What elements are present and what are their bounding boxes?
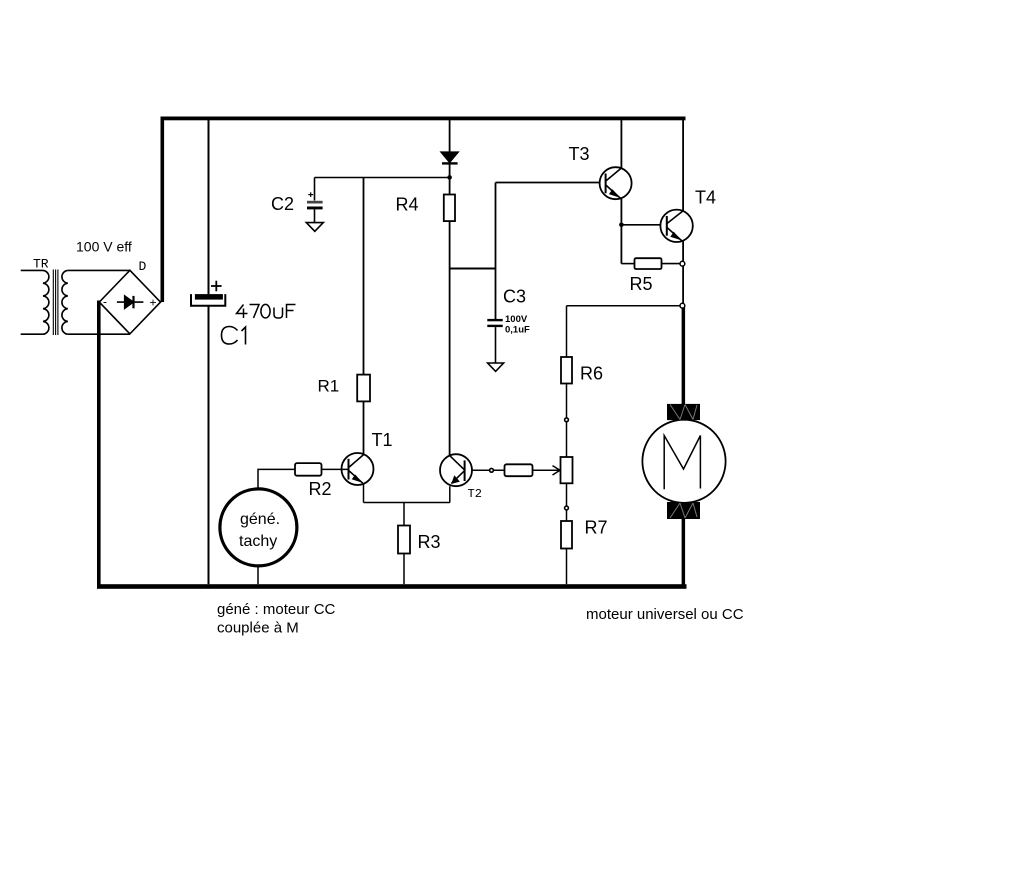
wire C1 bottom lead: [208, 306, 210, 584]
capacitor C1: [191, 281, 225, 306]
node motor branch: [680, 303, 685, 308]
node pot top: [565, 418, 569, 422]
wire R1 top lead: [363, 178, 365, 375]
svg-text:R1: R1: [318, 377, 340, 396]
svg-text:R4: R4: [396, 195, 419, 215]
wire T4 emitter: [682, 241, 684, 305]
node pot bottom: [565, 506, 569, 510]
wire R6 branch horizontal: [567, 305, 681, 307]
wire R4 to T2 collector: [449, 221, 451, 456]
wire motor bottom (thick): [682, 519, 686, 586]
wire pot to R7: [566, 483, 568, 521]
svg-text:T4: T4: [695, 188, 716, 208]
wire T1 emitter: [363, 484, 365, 502]
diode bridge D: [99, 270, 160, 334]
motor M: [642, 404, 725, 519]
transistor T3: [600, 167, 632, 199]
svg-text:R7: R7: [585, 518, 608, 538]
resistor R1: [357, 375, 370, 402]
wire top rail: [161, 117, 686, 121]
svg-text:T3: T3: [569, 144, 590, 164]
resistor R6: [561, 357, 572, 384]
svg-text:+: +: [150, 296, 157, 310]
transistor T1: [342, 453, 374, 485]
wire C2 to diode node: [315, 177, 450, 179]
resistor R2: [295, 463, 322, 476]
wire R2 to tachy: [258, 469, 295, 489]
svg-text:moteur universel ou CC: moteur universel ou CC: [586, 606, 744, 623]
generator gene tachy: [220, 489, 297, 566]
svg-text:T1: T1: [372, 430, 393, 450]
transistor T4: [660, 210, 692, 242]
wire T3 emitter: [620, 199, 622, 264]
svg-text:R6: R6: [580, 364, 603, 384]
wire bridge minus to bottom rail (thick drop): [97, 301, 101, 587]
capacitor C2: [307, 178, 323, 223]
wire R6 top lead: [566, 306, 568, 357]
wire T2 base lead: [472, 469, 505, 471]
wire T2 emitter: [449, 486, 451, 502]
wire motor top (thick): [682, 308, 686, 405]
wire R5 to T4 emitter: [662, 263, 681, 265]
transistor T2: [440, 454, 472, 486]
wire R3 to bottom rail: [403, 554, 405, 585]
wire bottom rail: [97, 584, 687, 589]
svg-text:-: -: [103, 295, 107, 309]
wire R1 to T1 collector: [363, 401, 365, 454]
svg-text:géné.: géné.: [240, 511, 280, 528]
wire R7 to bottom rail: [566, 549, 568, 585]
diode D1: [441, 152, 458, 163]
wire junction to T4 base: [621, 224, 660, 226]
wire T1 base lead: [322, 468, 349, 470]
wire emitter bus: [364, 502, 450, 504]
node T3 emitter junction: [619, 223, 624, 228]
wire bridge plus to top rail (thick riser): [161, 117, 165, 303]
wire resistor to pot wiper: [533, 469, 560, 471]
resistor R4: [444, 195, 455, 222]
svg-text:tachy: tachy: [239, 533, 277, 550]
svg-text:couplée à M: couplée à M: [217, 620, 299, 637]
svg-text:C2: C2: [271, 194, 294, 214]
svg-text:T2: T2: [468, 487, 482, 501]
resistor R5: [635, 258, 662, 269]
wire diode to node: [449, 165, 451, 195]
resistor (T2 base, unlabeled): [505, 464, 533, 476]
wire C1 top lead: [208, 120, 210, 294]
pot wiper arrowhead: [553, 466, 561, 475]
resistor R7: [561, 521, 572, 549]
svg-text:D: D: [139, 259, 147, 274]
node T2 base: [490, 468, 494, 472]
wire tachy to bottom rail: [257, 566, 259, 584]
label C1: [222, 327, 246, 345]
wire R6 to pot: [566, 384, 568, 458]
svg-text:0,1uF: 0,1uF: [505, 324, 530, 335]
svg-text:TR: TR: [33, 257, 49, 272]
wire top rail to diode D1: [449, 120, 451, 152]
wire R3 top lead: [403, 503, 405, 526]
wire R4 bottom to C3 net: [450, 268, 496, 270]
ground (C3): [488, 363, 504, 371]
potentiometer P1: [561, 457, 573, 483]
ground (C2): [306, 223, 323, 232]
resistor R3: [398, 526, 410, 554]
wire top rail to T3 collector: [620, 120, 622, 168]
capacitor C3: [487, 319, 502, 363]
wire C3 net vertical: [495, 183, 497, 320]
svg-text:100 V eff: 100 V eff: [76, 239, 132, 255]
svg-text:C3: C3: [503, 286, 526, 306]
node R5 output: [680, 261, 685, 266]
node diode/R4/C2 junction: [447, 175, 452, 180]
svg-text:géné : moteur CC: géné : moteur CC: [217, 601, 336, 618]
svg-text:R3: R3: [418, 532, 441, 552]
transformer TR: [21, 270, 130, 336]
wire T3 emitter to R5: [621, 263, 634, 265]
wire T3 base line: [496, 182, 600, 184]
svg-text:R2: R2: [309, 479, 332, 499]
label 470uF: [237, 304, 296, 318]
svg-text:R5: R5: [630, 274, 653, 294]
wire top rail to T4 collector: [682, 120, 684, 211]
